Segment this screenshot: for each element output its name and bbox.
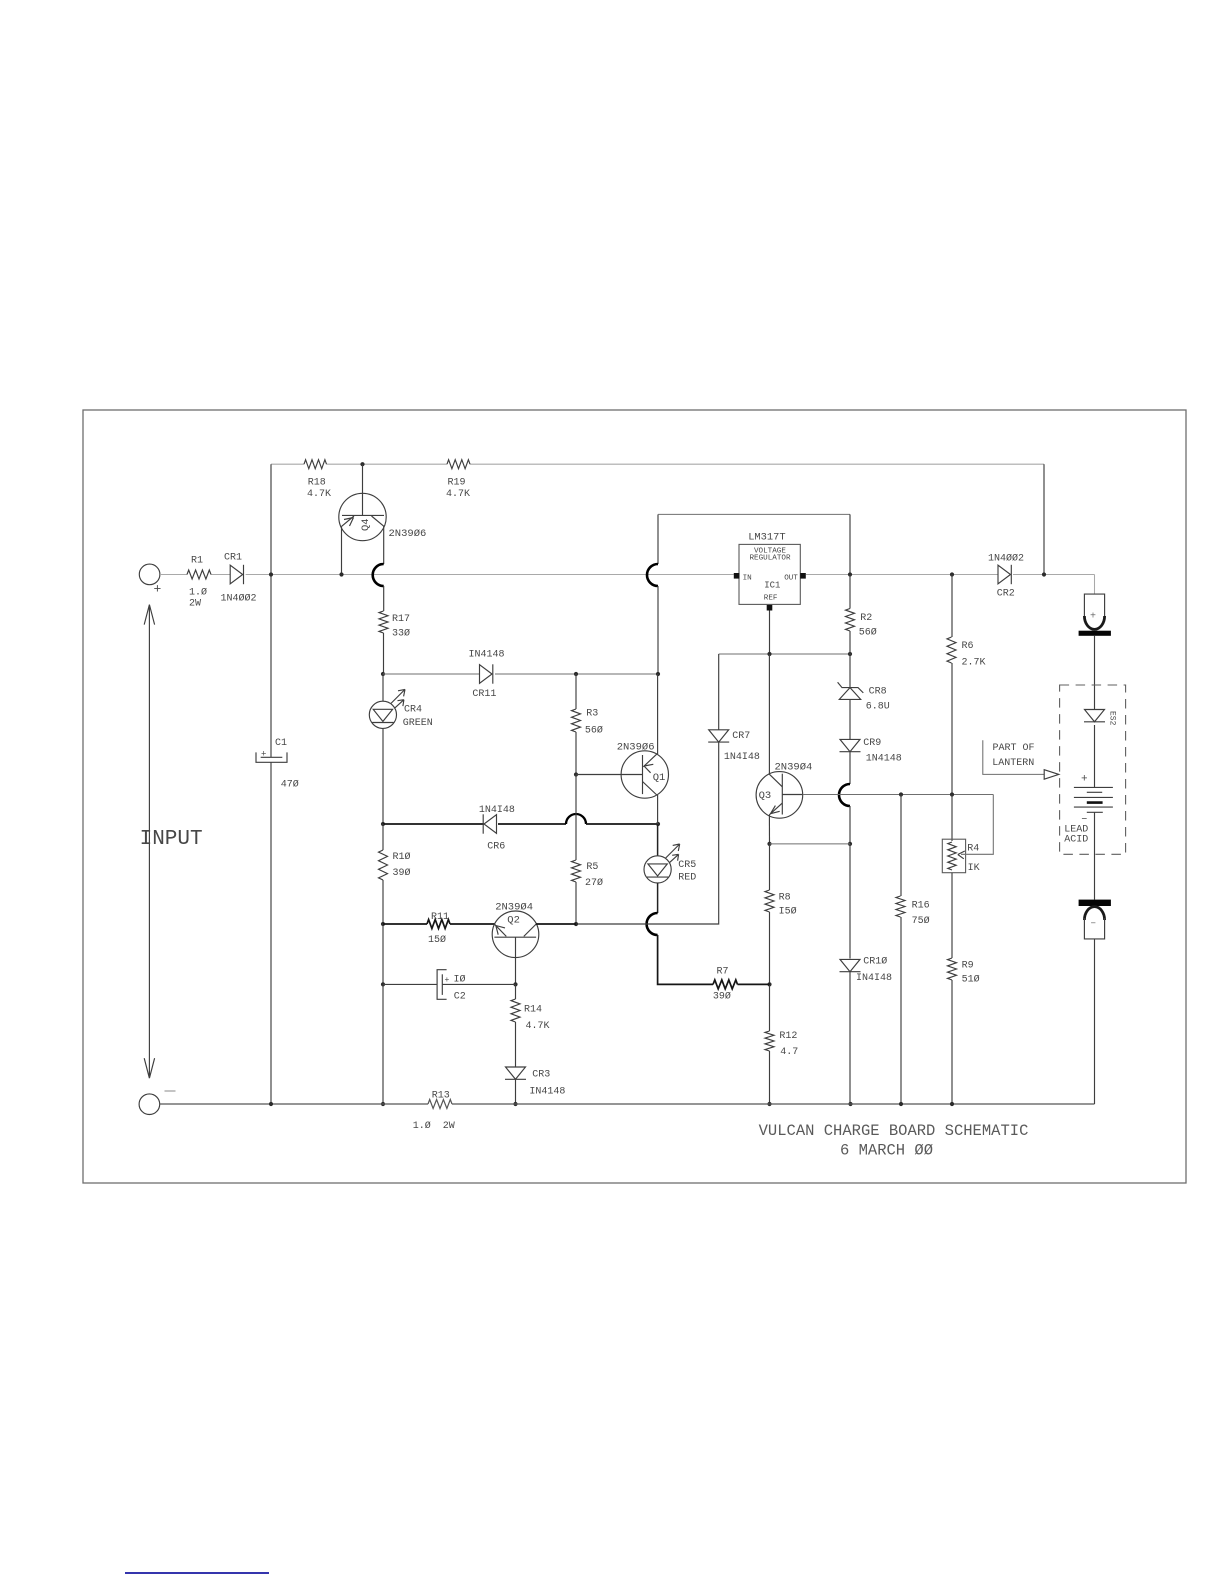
- wire CR6 to hump: [498, 823, 566, 825]
- resistor R9: [948, 958, 957, 980]
- resistor R5: [572, 860, 581, 882]
- node junction Q4 emitter on main rail: [339, 572, 343, 576]
- wire Q4 collector down x=383.5: [383, 526, 385, 564]
- svg-text:1N4I48: 1N4I48: [479, 805, 515, 816]
- svg-text:–: –: [1090, 919, 1096, 930]
- node junction bottom rail x=952: [950, 1102, 954, 1106]
- svg-text:2.7K: 2.7K: [962, 658, 986, 669]
- svg-text:Q2: Q2: [507, 915, 520, 927]
- wire R11 node to C2 node: [382, 924, 384, 984]
- svg-text:1N4ØØ2: 1N4ØØ2: [988, 553, 1024, 565]
- node junction R2 top on main rail: [848, 572, 852, 576]
- battery BT1 lead-acid: [1074, 786, 1113, 788]
- resistor R11: [427, 920, 450, 929]
- svg-text:R13: R13: [432, 1090, 450, 1101]
- wire Q1 base node through hump to R5: [575, 775, 577, 861]
- svg-text:R11: R11: [431, 912, 449, 923]
- svg-text:CR4: CR4: [404, 705, 422, 716]
- wire Q3 emitter down: [768, 815, 770, 844]
- wire R7 node to R12: [769, 984, 771, 1031]
- svg-text:GREEN: GREEN: [403, 718, 433, 729]
- wire Q3 collector up to REF node: [768, 654, 770, 774]
- wire R6 to Q3 base line: [951, 663, 953, 795]
- resistor R12: [765, 1031, 774, 1051]
- wire Q1 emitter lead up: [657, 674, 659, 754]
- svg-text:OUT: OUT: [784, 574, 798, 582]
- transistor Q3 2N3904: [756, 772, 803, 819]
- page border frame: [83, 410, 1186, 1183]
- svg-text:6 MARCH ØØ: 6 MARCH ØØ: [840, 1141, 933, 1159]
- svg-text:56Ø: 56Ø: [859, 627, 877, 639]
- resistor R1: [187, 570, 211, 579]
- svg-text:R5: R5: [586, 862, 598, 873]
- wire Q3 base line y=794.5: [803, 794, 994, 796]
- svg-text:39Ø: 39Ø: [713, 991, 731, 1003]
- svg-text:+: +: [1081, 773, 1088, 785]
- node junction Q3 emitter line right: [848, 842, 852, 846]
- svg-text:47Ø: 47Ø: [281, 778, 299, 790]
- node junction x=658 CR11 line: [656, 672, 660, 676]
- wire hump to R17: [383, 586, 385, 611]
- node junction Q3 emitter: [767, 842, 771, 846]
- node junction bottom rail x=383: [381, 1102, 385, 1106]
- resistor R19: [447, 460, 470, 469]
- wire CR11 to Q1 emitter node: [495, 673, 658, 675]
- crossover hump x=658 over main rail: [647, 564, 658, 586]
- node junction bottom rail x=850: [848, 1102, 852, 1106]
- wire R7 to R8 node: [738, 983, 770, 985]
- capacitor C1 (polarized 470uF): [261, 756, 283, 758]
- node junction REF / Q3 collector: [767, 652, 771, 656]
- svg-text:CR5: CR5: [678, 860, 696, 871]
- svg-text:51Ø: 51Ø: [962, 974, 980, 986]
- svg-text:R19: R19: [448, 477, 466, 488]
- svg-text:R17: R17: [392, 614, 410, 625]
- svg-text:56Ø: 56Ø: [585, 724, 603, 736]
- node junction bottom rail x=271: [269, 1102, 273, 1106]
- wire C2 right lead: [442, 983, 515, 985]
- svg-text:CR1Ø: CR1Ø: [863, 956, 887, 968]
- svg-text:CR2: CR2: [997, 588, 1015, 599]
- wire R16 top lead: [900, 795, 902, 897]
- node junction R4 top on base line: [950, 792, 954, 796]
- zener diode CR8 6.8V: [838, 682, 864, 693]
- wire CR11 line left segment: [383, 673, 480, 675]
- wire CR8 to CR9: [849, 699, 851, 739]
- node junction R11 left: [381, 922, 385, 926]
- wire CR7 bottom to Q2 collector line: [576, 742, 719, 924]
- svg-text:R9: R9: [962, 960, 974, 971]
- callout arrow (lantern): [1044, 770, 1059, 780]
- transistor Q2 2N3904: [492, 911, 539, 958]
- svg-text:R18: R18: [308, 477, 326, 488]
- transistor Q1 2N3906: [621, 751, 668, 798]
- node junction R3 top: [574, 672, 578, 676]
- node junction CR1 output x=271: [269, 572, 273, 576]
- svg-text:R1: R1: [191, 556, 203, 567]
- wire R14 to CR3: [515, 1022, 517, 1067]
- resistor R16: [896, 896, 905, 917]
- svg-text:CR9: CR9: [863, 738, 881, 749]
- wire + terminal to R1: [160, 574, 187, 576]
- wire R6 top lead: [951, 575, 953, 638]
- svg-text:C1: C1: [275, 738, 287, 749]
- wire R5 to Q2 collector line: [575, 882, 577, 924]
- svg-text:R8: R8: [779, 892, 791, 903]
- resistor R13: [428, 1100, 452, 1109]
- svg-text:1.Ø: 1.Ø: [189, 587, 207, 599]
- node junction bottom rail x=901: [899, 1102, 903, 1106]
- wire ES2 to battery: [1094, 725, 1096, 787]
- pin IN (IC1 left, black square): [734, 573, 740, 579]
- svg-text:33Ø: 33Ø: [392, 628, 410, 640]
- node junction bottom rail x=515.5: [513, 1102, 517, 1106]
- node junction Q1 base: [574, 772, 578, 776]
- wire minus clip to bottom rail: [1094, 939, 1096, 1104]
- label - (input negative): [165, 1090, 176, 1092]
- crossover hump y=824 over R3-R5 column: [566, 814, 586, 824]
- node junction R7 right / R8-R12: [767, 982, 771, 986]
- diode CR3 IN4148: [506, 1067, 526, 1079]
- contact plate + (black bar): [1079, 631, 1111, 636]
- wire top-right drop x=1044: [1043, 464, 1045, 574]
- svg-text:IN4I48: IN4I48: [856, 973, 892, 984]
- wire CR5 bottom to hump: [657, 883, 659, 913]
- svg-text:R12: R12: [779, 1031, 797, 1042]
- wire CR4 to CR6 node: [382, 728, 384, 824]
- node junction CR11 line left x=383: [381, 672, 385, 676]
- wire x=658 hump to corner and R7: [658, 935, 713, 984]
- wire bottom rail y=1104: [160, 1103, 1095, 1105]
- svg-text:1.Ø 2W: 1.Ø 2W: [413, 1120, 455, 1132]
- node junction bottom rail x=769.5: [767, 1102, 771, 1106]
- svg-text:CR3: CR3: [532, 1070, 550, 1081]
- svg-text:R2: R2: [860, 613, 872, 624]
- svg-text:REF: REF: [764, 594, 778, 602]
- potentiometer R4 1K (trimmer box): [942, 839, 965, 873]
- diode CR6 1N4I48: [484, 815, 497, 834]
- svg-text:1N4I48: 1N4I48: [724, 752, 760, 763]
- svg-text:RED: RED: [678, 873, 696, 884]
- svg-text:ES2: ES2: [1108, 711, 1117, 726]
- svg-text:2W: 2W: [189, 599, 201, 610]
- resistor R7: [713, 980, 738, 989]
- wire R14 top lead: [515, 984, 517, 999]
- svg-text:LM317T: LM317T: [748, 532, 785, 544]
- dashed outline part-of-lantern: [1060, 685, 1126, 854]
- wire box right x=850 to main rail: [849, 514, 851, 574]
- svg-text:1N4ØØ2: 1N4ØØ2: [221, 593, 257, 605]
- wire R12 to bottom rail: [769, 1051, 771, 1104]
- wire clip to lantern box: [1094, 636, 1096, 710]
- wire R8 to R7 node: [769, 912, 771, 984]
- wire CR3 to bottom rail: [515, 1079, 517, 1104]
- wire R10 to R11 node: [382, 880, 384, 924]
- wire CR6 line left segment: [383, 823, 484, 825]
- svg-text:CR1: CR1: [224, 553, 242, 564]
- resistor R10: [379, 850, 388, 880]
- callout leader PART OF LANTERN: [983, 740, 1044, 774]
- svg-text:R7: R7: [717, 966, 729, 977]
- wire C2 left lead: [383, 983, 437, 985]
- svg-text:REGULATOR: REGULATOR: [750, 555, 791, 563]
- wire R4 to R9: [951, 873, 953, 958]
- resistor R6: [947, 637, 956, 663]
- svg-text:4.7K: 4.7K: [446, 489, 470, 500]
- crossover hump x=850 over Q3 base line: [839, 784, 850, 806]
- lamp ES2 (lantern bulb, diode symbol): [1085, 710, 1105, 722]
- resistor R17: [379, 611, 388, 633]
- svg-text:PART OF: PART OF: [993, 743, 1035, 754]
- wire top rail y=464: [271, 463, 1044, 465]
- resistor R2: [846, 609, 855, 632]
- crossover hump x=383.5 over main rail: [373, 564, 384, 586]
- svg-text:4.7K: 4.7K: [526, 1021, 550, 1032]
- wire Q2 base down to C2 node: [515, 958, 517, 985]
- wire Q3 emitter to x=850: [770, 843, 851, 845]
- pin OUT (IC1 right, black square): [800, 573, 806, 579]
- blue underline mark (page bottom): [125, 1572, 269, 1574]
- crossover hump x=658 over Q2 collector line: [647, 913, 658, 935]
- wire Q3 emitter node to CR10: [849, 844, 851, 959]
- terminal clip - (charger output negative): [1084, 907, 1104, 920]
- diode CR11 1N4148: [480, 665, 493, 684]
- capacitor C2 (polarized 10uF): [437, 970, 447, 1000]
- svg-text:75Ø: 75Ø: [912, 915, 930, 927]
- svg-text:2N39Ø6: 2N39Ø6: [617, 742, 655, 754]
- svg-text:Q1: Q1: [653, 772, 666, 784]
- wire REF pin down: [769, 611, 771, 655]
- wire Q1 base: [576, 774, 621, 776]
- wire CR5 top lead: [657, 824, 659, 856]
- node junction CR2 cathode x=1044: [1042, 572, 1046, 576]
- wire Q2 collector line to R5 node: [536, 923, 576, 925]
- wire R2 to REF line: [849, 631, 851, 654]
- wire Q1 collector to CR6 node: [657, 795, 659, 824]
- terminal J1 + (input positive): [139, 564, 160, 585]
- svg-text:IN4148: IN4148: [469, 650, 505, 661]
- node junction Q2 base / C2 / R14: [513, 982, 517, 986]
- wire box top y=514 (IN loop): [658, 513, 850, 515]
- wire Q4 emitter to main rail: [341, 526, 343, 574]
- resistor R8: [765, 890, 774, 912]
- svg-text:+: +: [1090, 611, 1096, 622]
- svg-text:R14: R14: [524, 1005, 542, 1016]
- svg-text:+: +: [445, 976, 450, 985]
- diode CR9 1N4148: [840, 739, 860, 751]
- svg-text:+: +: [261, 750, 266, 760]
- node junction R2 bottom on REF line: [848, 652, 852, 656]
- wire REF line y=654: [719, 653, 851, 655]
- wire R4 top lead: [951, 795, 953, 842]
- wire C2 node to bottom rail: [382, 984, 384, 1104]
- wire R8 top lead: [769, 844, 771, 890]
- svg-text:Q3: Q3: [759, 790, 772, 802]
- wire main rail y=574.5: [160, 574, 1095, 576]
- node junction Q4 base on top rail: [360, 462, 364, 466]
- svg-text:1N4148: 1N4148: [866, 754, 902, 765]
- svg-text:4.7: 4.7: [780, 1047, 798, 1058]
- terminal clip + (charger output positive): [1084, 594, 1104, 616]
- svg-text:IC1: IC1: [764, 581, 780, 591]
- svg-text:2N39Ø4: 2N39Ø4: [495, 901, 533, 913]
- transistor Q4 2N3906: [339, 493, 386, 540]
- wire R16 to bottom rail: [900, 917, 902, 1104]
- svg-text:39Ø: 39Ø: [393, 867, 411, 879]
- svg-text:Q4: Q4: [360, 518, 372, 531]
- wire R9 to bottom rail: [951, 980, 953, 1104]
- svg-text:CR11: CR11: [472, 689, 496, 700]
- svg-text:R16: R16: [912, 900, 930, 911]
- svg-text:27Ø: 27Ø: [585, 877, 603, 889]
- wire CR10 to bottom rail: [849, 972, 851, 1104]
- pin REF (IC1 bottom, black square): [767, 605, 773, 611]
- wire CR4 top lead: [382, 674, 384, 701]
- wire R3 top lead: [575, 674, 577, 709]
- wire R10 top lead: [382, 824, 384, 850]
- svg-text:VULCAN CHARGE BOARD SCHEMATIC: VULCAN CHARGE BOARD SCHEMATIC: [759, 1122, 1029, 1140]
- LED CR5 RED: [644, 856, 671, 883]
- svg-text:R6: R6: [962, 641, 974, 652]
- svg-text:I5Ø: I5Ø: [779, 905, 797, 917]
- wire hump to Q1 collector node: [586, 823, 658, 825]
- wire R2 top lead: [849, 575, 851, 609]
- diode CR7 1N4I48: [709, 730, 729, 742]
- svg-text:15Ø: 15Ø: [428, 934, 446, 946]
- node junction C2 left: [381, 982, 385, 986]
- wire battery to minus clip: [1094, 812, 1096, 899]
- IC U1 LM317T voltage regulator box: [739, 544, 800, 604]
- arrow INPUT span: [144, 605, 154, 1079]
- svg-text:CR8: CR8: [869, 687, 887, 698]
- resistor R14: [511, 999, 520, 1022]
- svg-text:6.8U: 6.8U: [866, 701, 890, 712]
- svg-text:2N39Ø4: 2N39Ø4: [775, 762, 813, 774]
- svg-text:R4: R4: [967, 843, 979, 854]
- svg-text:4.7K: 4.7K: [307, 489, 331, 500]
- svg-text:C2: C2: [454, 992, 466, 1003]
- node junction R6 top on main rail: [950, 572, 954, 576]
- wire box-left vertical x=658 (top): [657, 514, 659, 564]
- resistor R18: [304, 460, 327, 469]
- svg-text:CR6: CR6: [487, 842, 505, 853]
- svg-text:IN: IN: [743, 575, 752, 583]
- wire CR9 to hump: [849, 752, 851, 784]
- contact plate - (black bar): [1079, 900, 1111, 906]
- diode CR10 1N4I48: [840, 959, 860, 971]
- svg-text:IK: IK: [968, 863, 980, 874]
- wire main rail to battery corner: [1094, 575, 1096, 595]
- LED CR4 GREEN: [369, 701, 396, 728]
- svg-text:+: +: [154, 582, 162, 597]
- wire REF node to CR8: [849, 654, 851, 688]
- wire x=658 hump to CR11 node: [657, 586, 659, 674]
- wire R17 to CR4 node: [383, 633, 385, 674]
- svg-text:IØ: IØ: [454, 974, 466, 986]
- wire hump to Q3 emitter node: [849, 806, 851, 844]
- svg-text:IN4148: IN4148: [529, 1086, 565, 1097]
- wire left branch x=271 (top rail to C1 to bottom rail): [270, 464, 272, 1104]
- svg-text:LANTERN: LANTERN: [992, 758, 1034, 769]
- wire R11 left lead: [383, 923, 427, 925]
- terminal J2 - (input negative): [139, 1094, 160, 1115]
- node junction Q1 collector / CR6 line: [656, 822, 660, 826]
- svg-text:2N39Ø6: 2N39Ø6: [389, 528, 427, 540]
- diode CR1: [230, 565, 243, 584]
- wire R3 to Q1 base node: [575, 732, 577, 775]
- wire CR7 top lead: [718, 654, 720, 730]
- resistor R3: [572, 709, 581, 732]
- diode CR2 1N4002: [998, 565, 1011, 584]
- node junction R16 top on base line: [899, 792, 903, 796]
- node junction R5 bottom / Q2 collector line: [574, 922, 578, 926]
- svg-text:CR7: CR7: [732, 731, 750, 742]
- svg-text:INPUT: INPUT: [140, 828, 203, 851]
- svg-text:R3: R3: [586, 708, 598, 719]
- svg-text:ACID: ACID: [1064, 834, 1088, 845]
- svg-text:R1Ø: R1Ø: [393, 851, 411, 863]
- node junction CR6 line left x=383: [381, 822, 385, 826]
- wire R11 to Q2 emitter: [450, 923, 495, 925]
